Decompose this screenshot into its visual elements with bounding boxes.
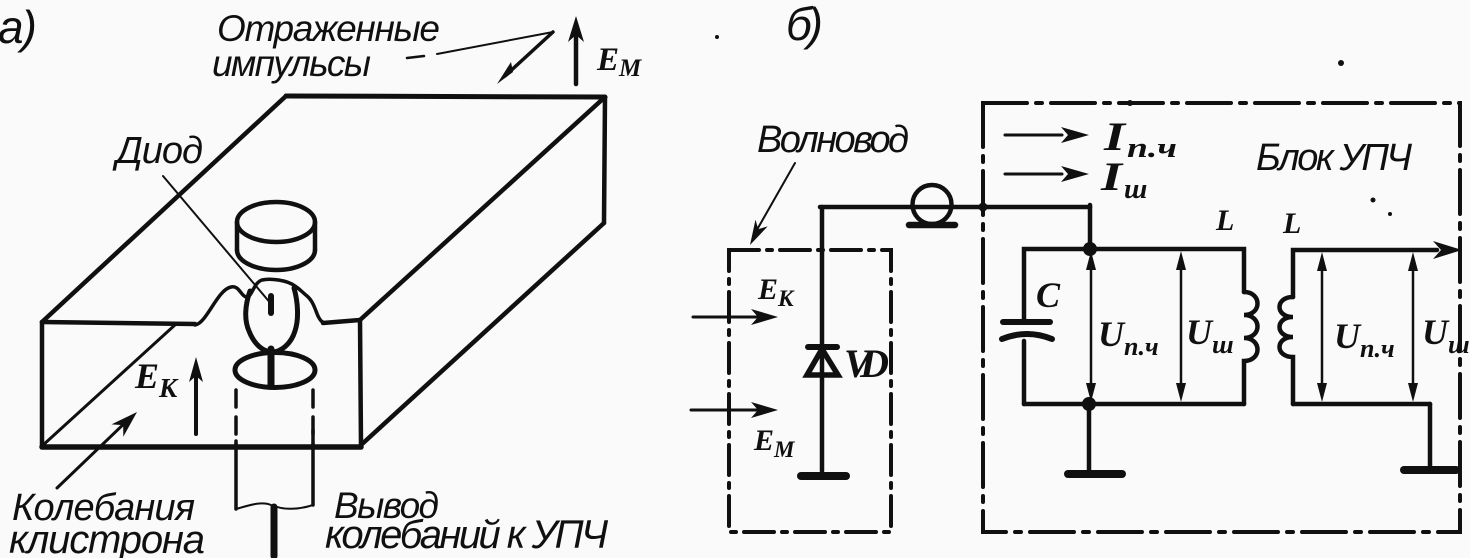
diode glass bell [246, 288, 298, 352]
coupling loop circle [913, 185, 952, 224]
tank1 bottom rail [1024, 402, 1244, 407]
scan speck [715, 35, 719, 39]
broken-out wavy edge around diode [195, 279, 326, 325]
scan speck [1338, 60, 1344, 66]
leader line from label to arrows [437, 32, 553, 54]
arrow E_M (waveguide) [691, 409, 757, 412]
svg-text:Диод: Диод [112, 130, 203, 172]
diode stem below waveguide [234, 441, 238, 509]
diode pin through flange [268, 349, 275, 385]
reflected pulses arrow [505, 32, 553, 76]
waveguide top face: left diagonal edge [42, 96, 286, 322]
diode VD symbol: triangle [807, 349, 838, 375]
diode stem dashed sides [234, 390, 238, 446]
junction dot tank1 top [1083, 242, 1097, 256]
scan speck [1388, 212, 1392, 216]
junction dot at UPCH edge [979, 203, 988, 212]
capacitor C plates [1003, 319, 1050, 325]
scan speck [1371, 198, 1376, 203]
waveguide front face: left vertical edge [40, 322, 45, 446]
ground (waveguide diode) [801, 472, 846, 480]
vector E_K arrow [194, 375, 198, 434]
svg-text:импульсы: импульсы [212, 43, 371, 84]
pointer arrow Волновод [754, 163, 795, 235]
output wire to UPCH block [820, 205, 1090, 210]
waveguide top face: right diagonal edge [360, 97, 605, 320]
inductor L1 [1244, 292, 1258, 404]
voltage arrow U_ш tank2 [1412, 263, 1415, 392]
svg-text:VD: VD [844, 341, 889, 386]
svg-text:L: L [1282, 207, 1301, 240]
waveguide dash-dot box [729, 250, 891, 532]
tank1 top rail [1024, 249, 1244, 320]
tank2 bottom rail [1293, 402, 1430, 407]
diode VD symbol: cathode bar [808, 344, 837, 350]
svg-text:колебаний к УПЧ: колебаний к УПЧ [325, 513, 608, 557]
wire below diode [820, 350, 825, 471]
waveguide interior edge [42, 324, 176, 446]
waveguide front face: right vertical edge [360, 320, 361, 446]
waveguide right face: bottom diagonal edge [361, 223, 604, 445]
wire from diode up to output [820, 207, 825, 347]
diode flange ellipse [235, 353, 315, 388]
ground tank2 [1428, 404, 1433, 467]
diode centre lead [271, 507, 278, 556]
pointer line Диод to diode [163, 176, 272, 305]
svg-text:б): б) [786, 0, 823, 50]
current arrow I_ш [1005, 173, 1062, 176]
voltage arrow U_ш tank1 [1180, 262, 1183, 392]
waveguide front top edge right segment [323, 320, 360, 323]
waveguide right face: rear vertical edge [604, 97, 605, 223]
current arrow I_пч [1005, 134, 1062, 137]
ground tank1 [1087, 404, 1092, 471]
svg-text:Волновод: Волновод [757, 119, 909, 161]
waveguide front top edge left segment [42, 322, 195, 324]
svg-text:L: L [1215, 204, 1234, 237]
svg-text:а): а) [0, 1, 37, 53]
scan speck [1127, 100, 1133, 106]
waveguide top face: top edge [286, 96, 605, 97]
klystron oscillations arrow [57, 418, 130, 488]
arrow E_K (waveguide) [693, 316, 757, 319]
junction dot tank1 bottom [1082, 397, 1096, 411]
coupling loop base bar [909, 222, 955, 229]
UPCH dash-dot box [983, 103, 1460, 532]
svg-text:Блок УПЧ: Блок УПЧ [1256, 137, 1412, 179]
voltage arrow U_пч tank1 [1090, 262, 1093, 392]
stem torn break edge [236, 503, 313, 509]
diode whisker pin [268, 296, 274, 313]
capacitor C lower wire [1022, 341, 1027, 404]
inductor L2 [1280, 297, 1294, 404]
waveguide front face: bottom edge [42, 444, 361, 450]
voltage arrow U_пч tank2 [1321, 263, 1324, 392]
svg-text:клистрона: клистрона [9, 518, 205, 558]
svg-text:C: C [1036, 275, 1061, 315]
diode cap cylinder [237, 202, 315, 242]
vector E_M arrow [574, 34, 579, 84]
wire corner down to tank1 [1088, 205, 1093, 249]
tank2 top rail with output arrow [1293, 250, 1437, 297]
